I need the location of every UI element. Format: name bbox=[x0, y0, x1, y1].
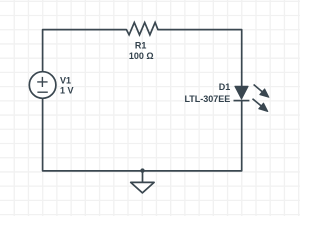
LED D1 (filled anode triangle) bbox=[235, 86, 248, 99]
svg-text:1 V: 1 V bbox=[60, 86, 74, 96]
svg-text:R1: R1 bbox=[135, 40, 147, 50]
voltage source V1 (circle body) bbox=[29, 72, 56, 99]
svg-text:LTL-307EE: LTL-307EE bbox=[184, 94, 230, 104]
ground (triangle symbol) bbox=[131, 182, 154, 193]
resistor R1 (zigzag body) bbox=[126, 23, 157, 35]
LED D1 cathode bar bbox=[234, 100, 250, 102]
V1 minus sign bbox=[37, 91, 47, 93]
wire top-left: from V1 top terminal up and right to resistor R1 left lead bbox=[43, 30, 127, 72]
wire top-right: from resistor R1 right lead to LED D1 anode bbox=[158, 30, 242, 87]
wire right-bottom-left: from LED D1 cathode down, across bottom, up to V1 bottom terminal bbox=[43, 99, 242, 171]
svg-text:100 Ω: 100 Ω bbox=[129, 51, 154, 61]
junction node (dot) on bottom wire bbox=[140, 168, 144, 172]
ground stem wire bbox=[142, 171, 144, 183]
svg-text:V1: V1 bbox=[60, 76, 71, 86]
LED light arrow 1 bbox=[254, 85, 269, 98]
svg-text:D1: D1 bbox=[219, 82, 231, 92]
LED light arrow 2 bbox=[253, 99, 268, 112]
V1 plus sign bbox=[37, 77, 47, 87]
